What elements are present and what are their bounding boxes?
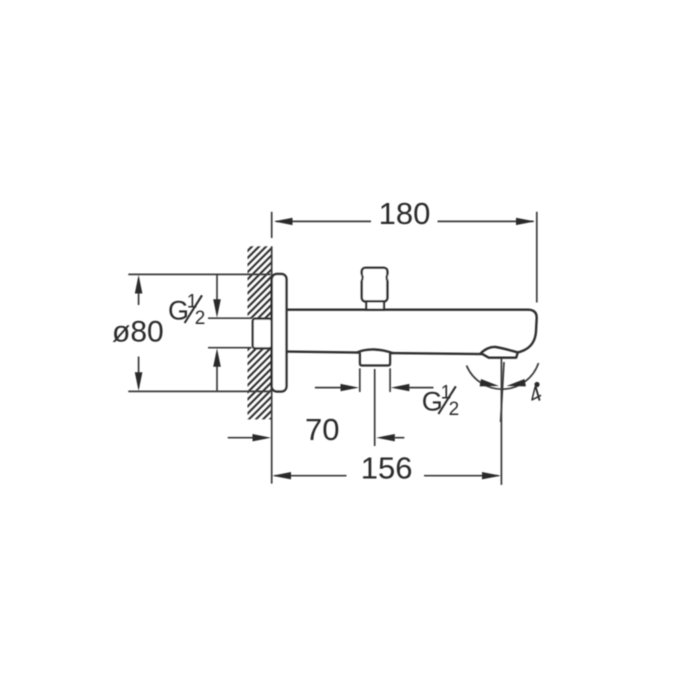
- svg-text:2: 2: [449, 399, 460, 420]
- svg-text:2: 2: [195, 308, 206, 329]
- spout body outline: [287, 310, 537, 358]
- dimension 180 arrow right: [516, 218, 535, 225]
- G half upper dim line bottom: [208, 347, 252, 349]
- outlet axis line 4 deg: [501, 362, 504, 422]
- dimension D80 arrow up: [135, 275, 143, 294]
- angle arc: [467, 363, 539, 389]
- inlet connector G1/2 behind wall: [253, 319, 272, 349]
- outlet vertical extension line: [500, 359, 502, 485]
- wall face line: [271, 246, 273, 483]
- G half upper text: [168, 292, 205, 329]
- spout bottom line left segment: [287, 352, 360, 353]
- dimension 70 line left: [228, 437, 253, 439]
- G half upper arrow shaft top: [216, 274, 218, 300]
- G half upper arrow shaft bottom: [216, 366, 218, 391]
- dimension D80 arrow down: [135, 372, 143, 391]
- angle arrow right: [507, 379, 526, 386]
- G half upper dim line top: [208, 317, 252, 319]
- hose connector bump: [356, 349, 393, 353]
- svg-text:180: 180: [379, 196, 431, 231]
- dimension 156 arrow left: [272, 472, 291, 479]
- spout outlet hump: [480, 347, 518, 354]
- wall hatching upper: [248, 246, 272, 318]
- dimension D80 line: [138, 279, 140, 306]
- G half lower arrow right: [409, 387, 433, 389]
- wall flange: [272, 274, 287, 392]
- dimension 180 line: [276, 220, 371, 222]
- dimension 180 arrow left: [274, 218, 293, 225]
- dimension 156 line: [275, 475, 347, 477]
- svg-text:ø80: ø80: [112, 316, 164, 349]
- angle arrow left: [480, 379, 499, 386]
- dimension D80 extension top: [128, 273, 270, 275]
- dimension 156 arrow right: [482, 472, 501, 479]
- diverter knob stem: [366, 301, 384, 309]
- G half lower text: [422, 383, 459, 420]
- diverter knob body: [362, 268, 388, 302]
- angle text 4 deg: [525, 381, 547, 408]
- hose bump center line: [374, 369, 376, 446]
- svg-text:70: 70: [305, 412, 339, 447]
- dimension D80 extension bottom: [128, 390, 270, 392]
- G half lower arrow left: [315, 387, 341, 389]
- wall hatching lower: [248, 348, 272, 419]
- dimension 70 arrow right: [376, 434, 395, 441]
- dimension 70 line right: [395, 437, 405, 439]
- dimension 70 arrow left: [253, 434, 272, 441]
- G half lower extension right: [389, 368, 391, 392]
- dimension 180 extension line right: [536, 212, 538, 303]
- G half lower extension left: [359, 368, 361, 392]
- dimension 180 extension line left: [271, 212, 273, 238]
- svg-text:156: 156: [361, 451, 413, 486]
